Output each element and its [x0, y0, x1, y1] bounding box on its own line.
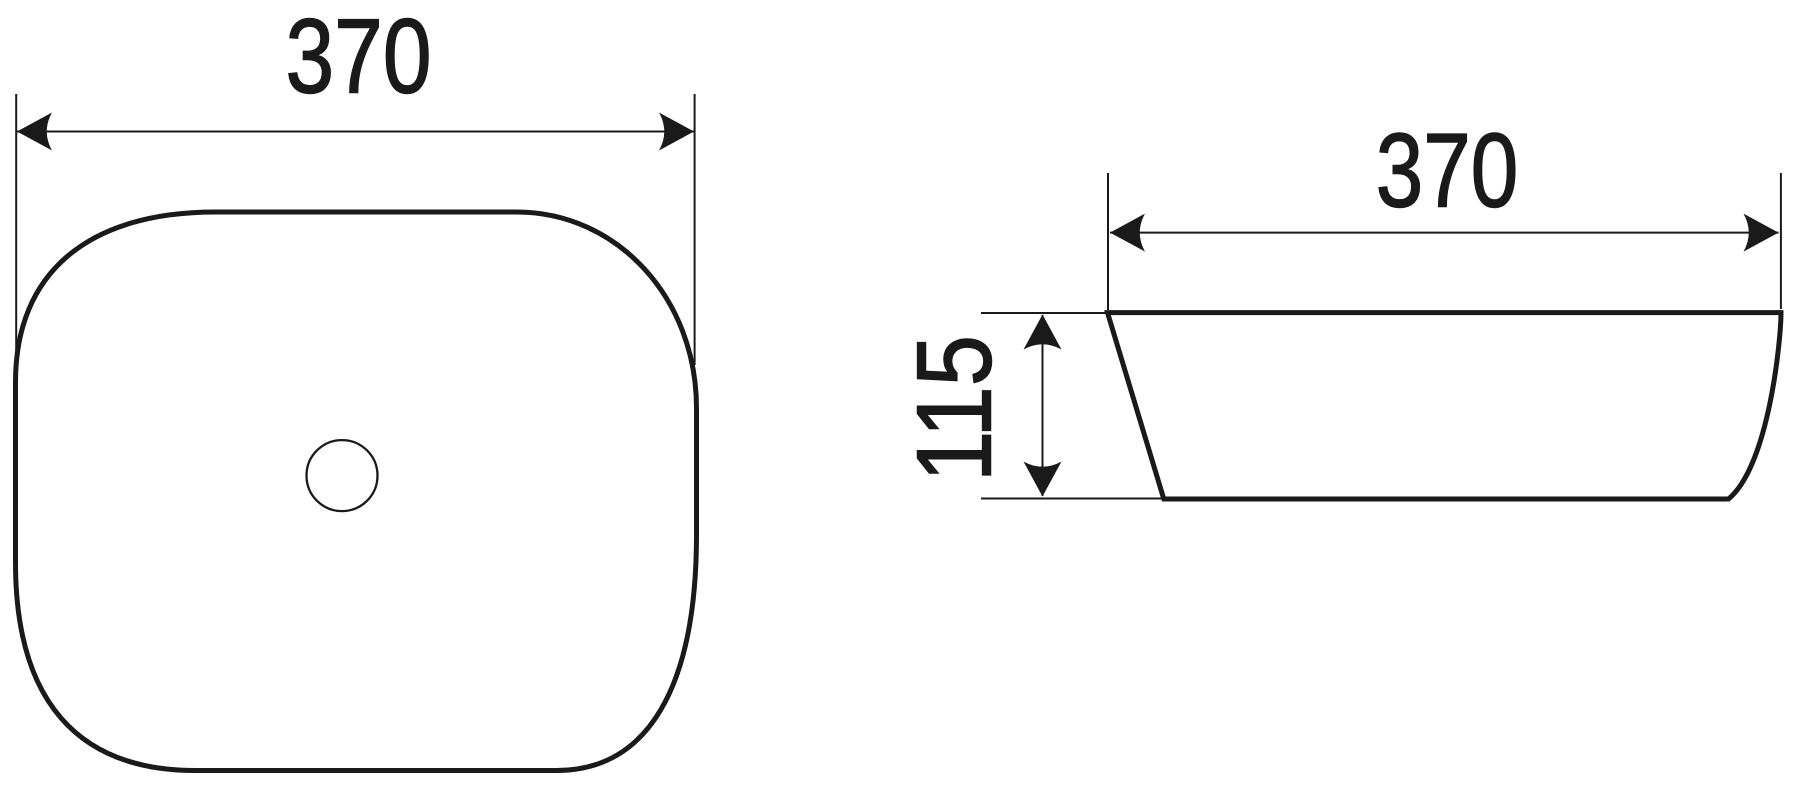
svg-text:115: 115	[895, 335, 1014, 482]
svg-text:370: 370	[1376, 112, 1519, 229]
svg-text:370: 370	[285, 0, 431, 115]
